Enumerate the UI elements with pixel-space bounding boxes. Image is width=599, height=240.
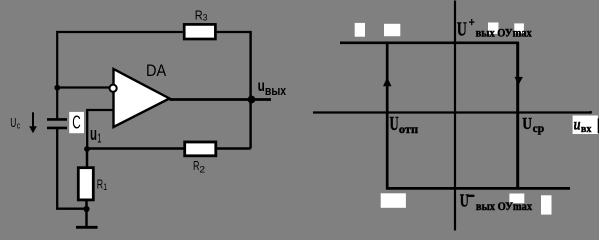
- wire: u1 to R2: [87, 147, 185, 150]
- label U_sr (trip threshold): [522, 114, 544, 135]
- node: inverting input junction: [54, 85, 60, 91]
- artifact white box top-left A: [355, 23, 365, 37]
- svg-text:U: U: [390, 113, 399, 135]
- svg-text:вых: вых: [265, 83, 287, 98]
- svg-text:1: 1: [103, 182, 107, 193]
- hysteresis: right branch: [516, 42, 519, 190]
- axis end dot: [589, 111, 592, 114]
- arrow: downward on right branch: [514, 77, 523, 85]
- wire: top feedback segment from left rail to R3: [57, 31, 184, 33]
- label u_vyh: [258, 78, 287, 98]
- svg-text:R: R: [97, 177, 103, 192]
- svg-text:U: U: [460, 191, 469, 211]
- wire: R1 to ground node: [85, 200, 88, 209]
- wire: u1 down to R1: [86, 149, 89, 168]
- label R1: [97, 177, 108, 194]
- svg-text:ср: ср: [533, 121, 545, 135]
- wire: right rail from top wire down to R2 wire: [249, 31, 251, 149]
- label C white tag: [69, 112, 84, 134]
- node: output junction: [248, 96, 256, 104]
- arrow: Uc polarity (down): [29, 112, 37, 133]
- svg-text:U: U: [522, 114, 532, 133]
- svg-text:u: u: [574, 116, 581, 133]
- svg-text:C: C: [72, 112, 81, 133]
- wire: left rail lower (capacitor to bottom wire corner): [57, 128, 86, 209]
- node u1: [84, 146, 90, 152]
- svg-text:вых ОУmax: вых ОУmax: [476, 200, 532, 213]
- wire: R2 to right rail: [216, 147, 251, 150]
- wire: left rail upper (top wire to capacitor): [56, 31, 58, 119]
- svg-text:1: 1: [97, 131, 102, 146]
- hysteresis: left branch: [386, 42, 389, 190]
- label R3: [195, 8, 208, 24]
- wire: op-amp output: [170, 98, 272, 101]
- artifact white box in bottom label: [509, 194, 524, 204]
- svg-text:отп: отп: [399, 122, 418, 136]
- svg-text:c: c: [17, 121, 20, 132]
- node: ground junction: [83, 206, 89, 212]
- svg-text:3: 3: [203, 13, 208, 24]
- capacitor C: [47, 119, 67, 128]
- artifact white box bottom-left: [381, 193, 406, 208]
- artifact white box top-left B: [384, 24, 400, 36]
- artifact white box in top label 2: [514, 23, 524, 33]
- hysteresis: bottom segment: [386, 187, 570, 190]
- label U_otp (release threshold): [390, 113, 419, 136]
- svg-text:вх: вх: [581, 123, 592, 135]
- svg-text:u: u: [90, 124, 97, 144]
- wire: non-inverting input from triangle to u1: [87, 110, 113, 149]
- artifact white box bottom-right: [541, 195, 552, 214]
- wire: ground stub: [85, 209, 88, 227]
- svg-text:2: 2: [199, 165, 205, 176]
- wire: R3 to right rail: [215, 31, 250, 33]
- label R2: [193, 158, 205, 176]
- label Uc: [10, 116, 20, 132]
- op-amp DA triangle: [114, 69, 170, 127]
- artifact black sliver at right edge: [598, 118, 599, 133]
- label u1: [90, 124, 102, 145]
- op-amp inverting input bubble: [110, 85, 117, 92]
- svg-text:R: R: [195, 8, 203, 23]
- arrow: upward on left branch: [383, 77, 392, 86]
- svg-text:DA: DA: [146, 62, 166, 80]
- svg-text:U: U: [10, 116, 16, 130]
- label U- vyh OU max (negative saturation): [460, 191, 533, 213]
- resistor R2: [185, 142, 216, 156]
- svg-text:U: U: [457, 19, 467, 41]
- svg-text:+: +: [469, 15, 475, 30]
- ground: [76, 226, 98, 229]
- label u_vh white tag (input voltage axis): [573, 116, 598, 136]
- artifact white box in top label: [488, 23, 499, 34]
- resistor R1: [78, 168, 93, 200]
- axis: horizontal input-voltage axis: [313, 111, 590, 113]
- label U+ vyh OU max (positive saturation): [457, 15, 532, 41]
- hysteresis: top segment: [340, 41, 519, 44]
- resistor R3: [184, 24, 215, 39]
- axis: vertical output-voltage axis: [454, 1, 456, 231]
- wire: junction to inverting input bubble: [57, 86, 110, 88]
- svg-text:u: u: [258, 78, 265, 95]
- svg-text:вых ОУmax: вых ОУmax: [476, 26, 532, 39]
